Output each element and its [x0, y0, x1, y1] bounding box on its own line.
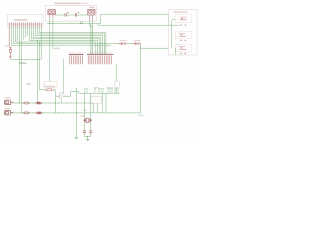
wire bus net pin x=29.2 — [29, 27, 97, 54]
wire net stub down-left b — [52, 24, 54, 50]
wire rail y23.5 — [47, 23, 101, 25]
JP2 pin names — [88, 52, 112, 53]
wire rail y26.5 — [90, 26, 93, 28]
right box label — [173, 11, 187, 12]
wire gnd join — [84, 136, 90, 138]
JP1 pin names — [69, 52, 83, 53]
wire v116 with label box — [115, 64, 117, 81]
connector SV1 label — [14, 19, 27, 20]
wire net stub down-left a — [49, 24, 51, 50]
K2 label — [179, 33, 186, 34]
connector X2 — [88, 9, 95, 15]
tiny label — [83, 109, 86, 111]
gate label — [59, 92, 64, 93]
pin header JP2 pins — [88, 55, 111, 64]
gray text — [27, 83, 31, 85]
wire faint down to U2 area — [49, 50, 51, 82]
terminal X4 — [5, 110, 13, 115]
ground GND2 — [75, 137, 78, 139]
pin header JP2 body — [87, 54, 114, 56]
D1 label — [120, 40, 127, 41]
wire stub pin x=23.2 — [22, 27, 24, 40]
wire drop GND to JP2 — [92, 27, 94, 55]
wire branch vertical to R2 — [39, 42, 41, 90]
ground GND1 — [86, 139, 89, 141]
R2 label — [45, 86, 55, 87]
capacitor C2 — [75, 12, 79, 17]
diode D2 — [133, 42, 141, 45]
wire link v168 — [167, 14, 169, 25]
component K2 outline — [175, 31, 191, 38]
power supply frame — [45, 6, 96, 22]
component U3 box — [91, 96, 102, 103]
wire to GND2 — [75, 89, 77, 138]
wire mid rail y93 — [79, 92, 120, 94]
wire stub pin x=17.2 — [16, 27, 18, 42]
wire gate in — [55, 95, 59, 97]
connector SV1 frame — [8, 15, 43, 28]
D2 label — [134, 40, 141, 41]
Q1 label — [80, 116, 85, 117]
wire XTAL1 — [83, 93, 85, 130]
wire stub a — [80, 21, 82, 23]
power supply label2 — [82, 3, 88, 4]
component K2 symbol — [179, 34, 186, 41]
net label text — [20, 62, 26, 63]
wire C4 down — [90, 132, 92, 136]
power supply label — [54, 3, 81, 5]
wire stub to box bottom — [174, 48, 176, 55]
wire R1 bottom — [9, 57, 11, 59]
capacitor C4 — [89, 131, 92, 133]
wire net y45 — [11, 27, 111, 45]
pin header JP1 body — [69, 54, 84, 56]
resistor R5 — [23, 112, 30, 114]
wire U3 leg1 — [92, 103, 94, 113]
wire C3 down — [83, 132, 85, 136]
resistor R3 — [23, 102, 30, 104]
component K3 outline — [175, 45, 191, 52]
wire net to diodes — [13, 27, 119, 44]
wire X2 pin2 down — [92, 21, 94, 27]
capacitor C1 — [65, 12, 69, 17]
wire bus net pin x=37.2 — [37, 27, 104, 54]
label box — [115, 81, 120, 87]
stub labels a — [94, 87, 99, 88]
wire pin17 to R1 — [10, 27, 41, 59]
X2 label — [89, 7, 94, 8]
wire XTAL2 — [90, 93, 92, 130]
wire down b — [105, 93, 107, 113]
connector X1 pins — [49, 15, 51, 18]
wire gnd stub — [87, 137, 89, 140]
wire inside supply — [55, 14, 87, 16]
resistor R4 — [35, 102, 42, 104]
wire down a — [101, 93, 103, 113]
wire U3 leg2 — [96, 103, 98, 113]
component K1 symbol — [180, 18, 187, 26]
wire stub b — [81, 21, 83, 23]
R1 label — [5, 45, 9, 46]
wire to K1 left — [172, 19, 176, 21]
wire X1 pin1 down — [49, 18, 51, 24]
wire stub pin x=27.2 — [26, 27, 28, 36]
right box frame — [168, 10, 197, 55]
net label stubs on mid rail — [85, 89, 118, 93]
connector X2 pins — [89, 15, 91, 21]
wire inside right box — [171, 20, 173, 48]
wire stub pin x=25.2 — [24, 27, 26, 38]
wire long vertical to row1 — [18, 27, 20, 103]
wire to R2 — [40, 89, 46, 91]
wire gate out — [65, 92, 79, 97]
K1 label — [180, 17, 187, 18]
wire branch vertical to row1 — [37, 40, 39, 103]
pin header JP1 pins — [70, 55, 83, 64]
wire down to row2 rail — [140, 48, 142, 113]
wire long vertical to row2 — [20, 27, 22, 113]
capacitor C3 — [83, 131, 86, 133]
net label stub — [19, 63, 27, 65]
wire net y42 — [15, 27, 96, 54]
wire D1-D2 — [127, 43, 134, 45]
wire bus net pin x=39.2 — [39, 27, 106, 54]
wire D2 to right box — [141, 44, 169, 49]
component K1 outline — [175, 15, 191, 23]
connector X1 — [48, 10, 56, 15]
wire down to gate and rails — [54, 90, 56, 113]
X4 label — [5, 108, 11, 109]
wire R2 out — [54, 89, 56, 91]
wire row1 rail — [14, 102, 93, 104]
wire bus net pin x=33.2 — [33, 27, 101, 54]
wire link v100.6 — [100, 14, 102, 23]
resistor R2 — [45, 89, 54, 91]
wire row2 rail — [14, 112, 141, 114]
component U2 frame — [44, 82, 57, 88]
terminal X3 — [5, 100, 13, 105]
component K3 symbol — [179, 47, 186, 54]
resistor R6 — [36, 112, 43, 114]
wire gate lower pin — [61, 98, 63, 103]
wire bus net pin x=35.2 — [35, 27, 102, 54]
wire bus net pin x=31.2 — [31, 27, 99, 54]
gate T1 — [60, 94, 65, 98]
wire X1 pin2 down — [52, 18, 54, 24]
wire long net y25 — [98, 24, 180, 26]
wire v63 — [62, 59, 64, 94]
net label at corner — [138, 115, 144, 117]
wire long net y14 — [101, 13, 169, 15]
wire drop VCC to JP2 — [90, 24, 92, 55]
wire X2 pin1 down — [89, 21, 91, 27]
K3 label — [179, 46, 186, 47]
crystal Q1 — [84, 118, 92, 122]
diode D1 — [119, 42, 127, 45]
resistor R1 — [9, 27, 12, 57]
connector SV1 pins — [9, 23, 41, 27]
stub labels b — [106, 87, 113, 88]
wire link v98 — [97, 24, 99, 26]
net label — [54, 48, 60, 50]
pin numbers — [9, 22, 41, 23]
X3 label — [5, 97, 11, 98]
